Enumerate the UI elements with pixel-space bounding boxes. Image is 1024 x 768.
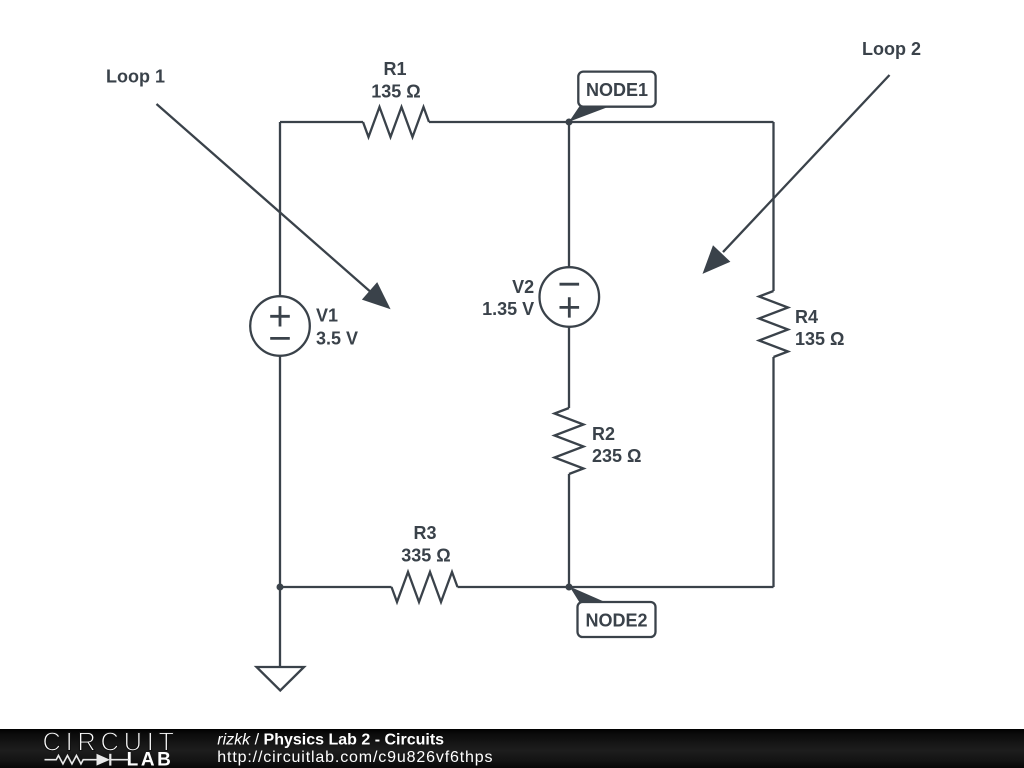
svg-text:LAB: LAB: [127, 750, 174, 768]
resistor R3: [392, 572, 458, 602]
logo resistor-diode symbol: [45, 754, 130, 766]
wire bottom from R3 to NODE2 to right corner: [458, 586, 774, 588]
wire top from left corner to NODE1 to right corner: [280, 121, 363, 123]
svg-text:Loop 2: Loop 2: [862, 39, 921, 59]
CircuitLab logo wordmark: [43, 729, 179, 768]
svg-text:V2: V2: [512, 277, 534, 297]
wire bottom from left to R3: [280, 586, 392, 588]
svg-text:R4: R4: [795, 307, 818, 327]
svg-text:135 Ω: 135 Ω: [371, 82, 420, 102]
node NODE2 flag: [570, 587, 656, 638]
svg-text:335 Ω: 335 Ω: [401, 546, 450, 566]
svg-text:http://circuitlab.com/c9u826vf: http://circuitlab.com/c9u826vf6thps: [217, 749, 493, 766]
svg-text:1.35 V: 1.35 V: [482, 299, 534, 319]
loop 1 annotation arrow: [157, 104, 391, 309]
wire V2 to R2: [568, 327, 570, 408]
voltage source V1: [250, 296, 310, 356]
node NODE1 flag: [569, 72, 656, 122]
svg-text:235 Ω: 235 Ω: [592, 446, 641, 466]
svg-text:R3: R3: [413, 523, 436, 543]
wire R2 to bottom: [568, 474, 570, 587]
svg-text:V1: V1: [316, 306, 338, 326]
wire ground stem: [279, 587, 281, 667]
svg-text:rizkk / Physics Lab 2 - Circui: rizkk / Physics Lab 2 - Circuits: [217, 732, 444, 749]
wire left vertical lower (V1 to bottom wire): [279, 356, 281, 587]
resistor R4: [759, 291, 788, 357]
wire right vertical (top corner to R4): [772, 122, 774, 291]
wire left vertical upper (top corner to V1): [279, 122, 281, 296]
svg-text:3.5 V: 3.5 V: [316, 329, 358, 349]
node junction dot ground: [277, 584, 284, 591]
ground: [257, 667, 305, 691]
svg-text:R1: R1: [383, 59, 406, 79]
svg-text:NODE2: NODE2: [585, 611, 647, 631]
svg-text:NODE1: NODE1: [586, 80, 648, 100]
node B junction dot NODE2: [566, 584, 573, 591]
wire center vertical (NODE1 to V2): [568, 122, 570, 267]
svg-text:135 Ω: 135 Ω: [795, 329, 844, 349]
svg-text:R2: R2: [592, 424, 615, 444]
voltage source V2: [540, 267, 600, 327]
resistor R2: [555, 408, 584, 474]
resistor R1: [363, 107, 429, 137]
wire R4 to bottom right corner: [772, 357, 774, 587]
svg-text:Loop 1: Loop 1: [106, 67, 165, 87]
footer bar: [0, 729, 1024, 768]
node A junction dot NODE1: [566, 119, 573, 126]
loop 2 annotation arrow: [703, 75, 890, 274]
